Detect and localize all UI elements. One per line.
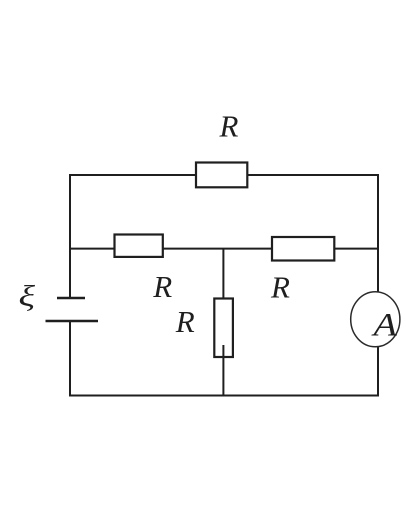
label R value (top resistor R1) [219,109,239,144]
ammeter A1 (circle) [351,292,400,347]
resistor R4 (right middle box) [272,237,334,261]
resistor R2 (left middle box) [115,235,163,257]
svg-text:R: R [219,109,239,144]
wire battery negative lead (long plate down to bottom wire) [69,321,71,396]
label xi (EMF of battery) [19,280,36,313]
wire right vertical upper (x=378, top wire to ammeter) [377,174,379,292]
resistor R3 (vertical middle box) [214,299,233,358]
label R value (left middle resistor R2) [152,269,172,304]
svg-text:A: A [371,308,398,344]
wire R3 bottom lead (into box down to bottom wire) [222,345,224,396]
wire top (node between battery + and R1, y=175) [70,174,378,176]
svg-text:ξ: ξ [19,280,36,313]
label A (ammeter) [371,308,398,344]
svg-text:R: R [175,304,195,339]
label R value (vertical resistor R3) [175,304,195,339]
wire middle horizontal (node row y=248.6) [69,248,378,250]
label R value (right middle resistor R4) [270,270,290,305]
wire middle vertical (junction at y=248.6 down to R3) [222,249,224,299]
svg-text:R: R [152,269,172,304]
battery cell negative plate (long, bottom) [46,320,99,322]
svg-text:R: R [270,270,290,305]
wire bottom (y=395.5) [69,395,379,397]
wire right vertical lower (ammeter to bottom wire) [377,347,379,396]
resistor R1 (top branch box) [196,163,247,188]
battery cell positive plate (short, top) [57,297,85,299]
wire left vertical (x=70, top wire down to battery + plate) [69,174,71,298]
